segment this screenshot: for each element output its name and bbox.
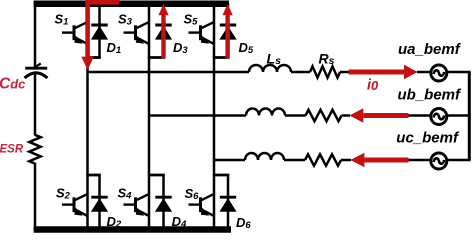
svg-text:D2: D2 — [107, 214, 122, 230]
svg-text:D1: D1 — [107, 40, 122, 56]
svg-text:D4: D4 — [172, 214, 187, 230]
svg-text:D5: D5 — [239, 40, 254, 56]
svg-text:ESR: ESR — [0, 144, 24, 156]
svg-text:Ls: Ls — [267, 51, 282, 67]
svg-text:ub_bemf: ub_bemf — [398, 86, 463, 103]
svg-text:i0: i0 — [367, 77, 379, 93]
svg-text:S2: S2 — [56, 185, 71, 201]
svg-text:uc_bemf: uc_bemf — [396, 130, 460, 147]
svg-text:S3: S3 — [118, 12, 133, 28]
svg-text:Rs: Rs — [319, 51, 335, 67]
svg-text:S4: S4 — [118, 186, 133, 202]
svg-text:ua_bemf: ua_bemf — [398, 41, 462, 58]
svg-text:D6: D6 — [236, 215, 251, 231]
svg-text:D3: D3 — [173, 40, 188, 56]
svg-text:S1: S1 — [55, 11, 69, 27]
svg-text:S5: S5 — [184, 12, 199, 28]
svg-text:Cdc: Cdc — [0, 75, 26, 92]
svg-text:S6: S6 — [185, 186, 200, 202]
